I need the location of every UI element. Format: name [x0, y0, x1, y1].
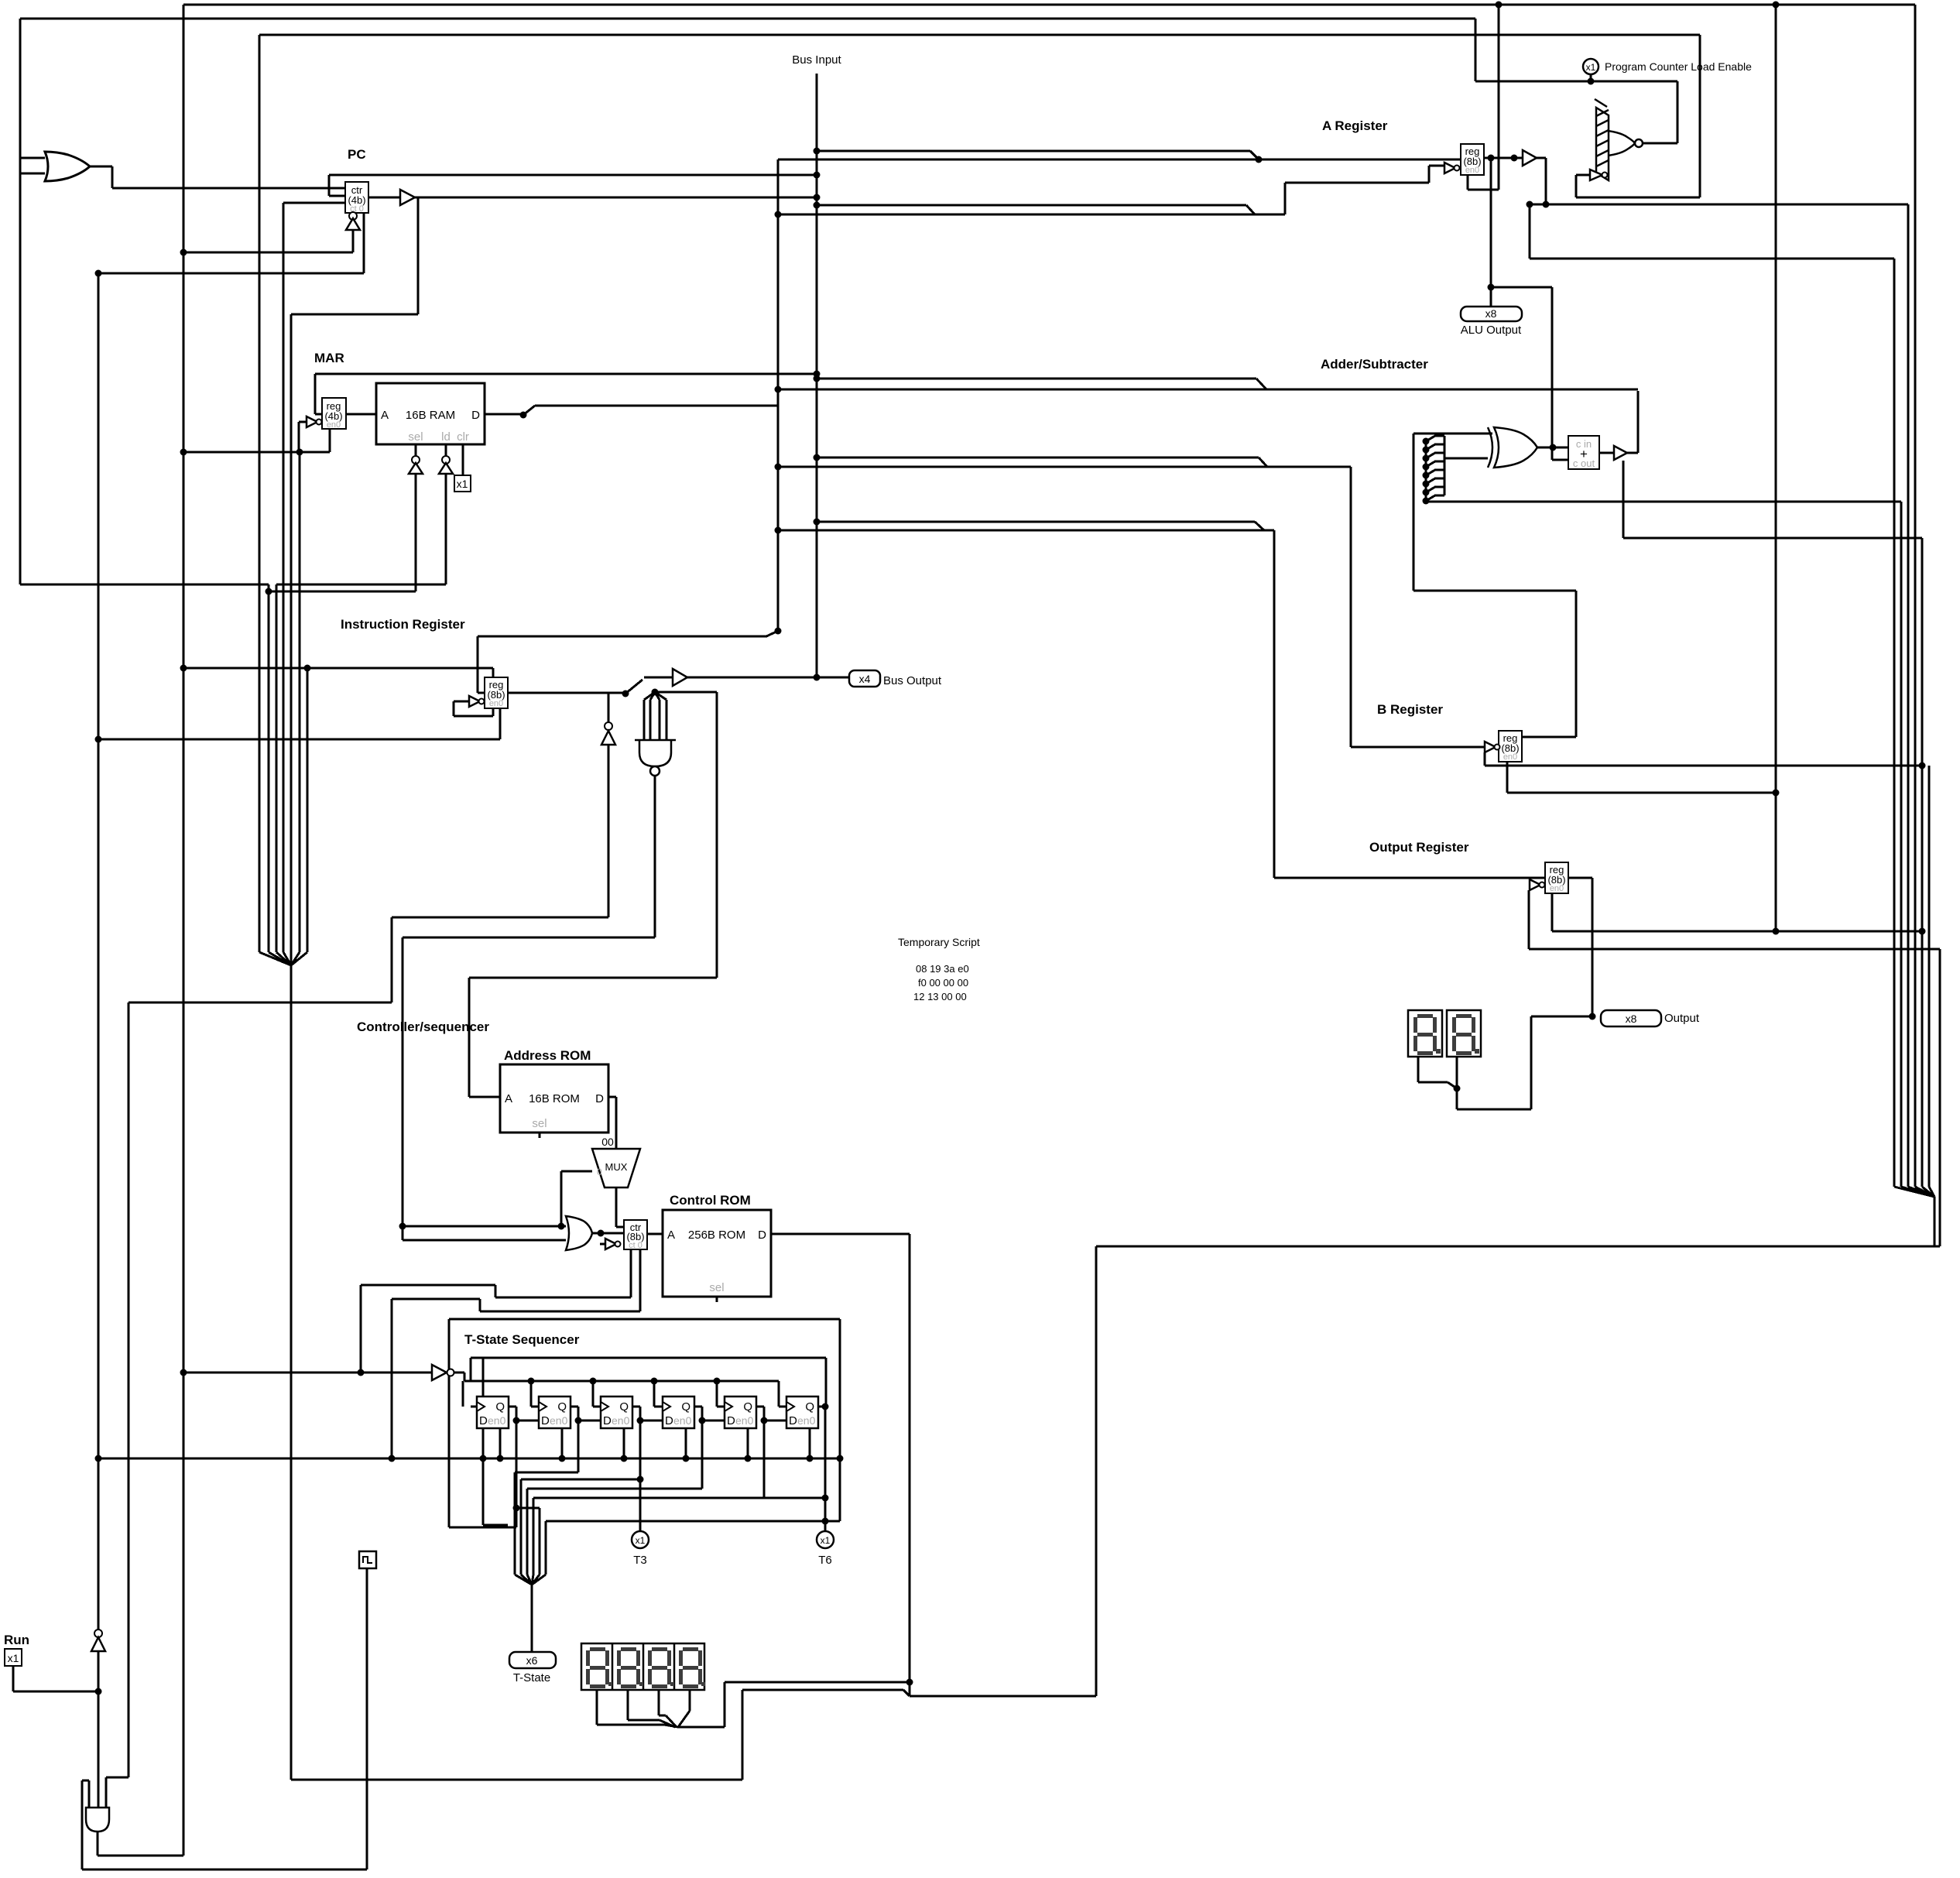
svg-text:en0: en0 [735, 1414, 754, 1427]
svg-text:en0: en0 [797, 1414, 816, 1427]
svg-text:Bus Output: Bus Output [883, 674, 942, 687]
svg-text:D: D [479, 1414, 488, 1427]
svg-text:x1: x1 [821, 1535, 831, 1546]
svg-text:MAR: MAR [314, 351, 344, 365]
svg-text:Q: Q [495, 1400, 505, 1414]
svg-text:Adder/Subtracter: Adder/Subtracter [1321, 357, 1428, 372]
svg-text:A: A [381, 409, 389, 422]
svg-text:Q: Q [557, 1400, 567, 1414]
svg-text:A Register: A Register [1322, 118, 1388, 133]
svg-text:c out: c out [1573, 458, 1595, 469]
svg-text:0: 0 [597, 1167, 602, 1177]
svg-text:Q: Q [681, 1400, 690, 1414]
svg-text:D: D [541, 1414, 550, 1427]
svg-text:x8: x8 [1626, 1013, 1637, 1025]
svg-text:en0: en0 [550, 1414, 568, 1427]
svg-text:12 13 00 00: 12 13 00 00 [913, 991, 967, 1002]
svg-text:D: D [758, 1229, 766, 1242]
svg-text:08 19 3a e0: 08 19 3a e0 [916, 963, 969, 975]
svg-text:D: D [727, 1414, 735, 1427]
svg-text:PC: PC [348, 147, 366, 162]
svg-text:A: A [505, 1092, 512, 1105]
svg-text:en0: en0 [612, 1414, 630, 1427]
svg-text:D: D [595, 1092, 604, 1105]
svg-text:ct 0: ct 0 [350, 204, 364, 214]
svg-text:Temporary Script: Temporary Script [898, 936, 980, 948]
svg-text:x1: x1 [1586, 62, 1596, 73]
svg-text:en0: en0 [1465, 166, 1479, 175]
svg-text:ALU Output: ALU Output [1461, 324, 1522, 337]
svg-text:x4: x4 [859, 673, 871, 685]
svg-text:x1: x1 [457, 478, 468, 490]
svg-text:sel: sel [408, 430, 423, 444]
svg-text:Instruction Register: Instruction Register [341, 617, 465, 632]
svg-text:Bus Input: Bus Input [792, 53, 841, 67]
svg-text:Q: Q [619, 1400, 629, 1414]
svg-text:16B ROM: 16B ROM [529, 1092, 580, 1105]
svg-text:sel: sel [709, 1281, 724, 1294]
svg-text:en0: en0 [327, 420, 341, 430]
svg-text:en0: en0 [489, 699, 503, 708]
svg-text:Control ROM: Control ROM [670, 1193, 751, 1208]
svg-text:en0: en0 [488, 1414, 506, 1427]
svg-text:Output: Output [1664, 1012, 1700, 1025]
svg-text:f0 00 00 00: f0 00 00 00 [918, 977, 968, 989]
svg-text:D: D [603, 1414, 612, 1427]
svg-text:256B ROM: 256B ROM [688, 1229, 745, 1242]
svg-text:T-State: T-State [513, 1671, 550, 1684]
svg-text:en0: en0 [1503, 752, 1517, 762]
svg-text:en0: en0 [673, 1414, 692, 1427]
svg-text:en0: en0 [1550, 884, 1564, 893]
svg-text:Address ROM: Address ROM [504, 1048, 591, 1063]
svg-text:T-State Sequencer: T-State Sequencer [464, 1332, 580, 1347]
svg-text:D: D [471, 409, 480, 422]
svg-text:B Register: B Register [1377, 702, 1443, 717]
svg-text:clr: clr [457, 430, 469, 444]
svg-text:MUX: MUX [605, 1161, 628, 1173]
svg-text:Controller/sequencer: Controller/sequencer [357, 1020, 489, 1034]
svg-text:00: 00 [601, 1136, 614, 1148]
svg-text:x6: x6 [526, 1654, 538, 1667]
svg-text:A: A [667, 1229, 675, 1242]
svg-text:x1: x1 [636, 1535, 646, 1546]
svg-text:ct 0: ct 0 [629, 1241, 642, 1250]
svg-text:D: D [665, 1414, 673, 1427]
svg-text:D: D [789, 1414, 797, 1427]
svg-text:T3: T3 [633, 1554, 647, 1567]
svg-text:Program Counter Load Enable: Program Counter Load Enable [1605, 60, 1752, 73]
svg-text:Q: Q [805, 1400, 814, 1414]
svg-text:Run: Run [4, 1633, 29, 1647]
svg-text:x1: x1 [8, 1652, 19, 1664]
svg-text:Output Register: Output Register [1369, 840, 1469, 855]
svg-text:ld: ld [441, 430, 451, 444]
svg-text:Q: Q [743, 1400, 752, 1414]
svg-text:T6: T6 [818, 1554, 832, 1567]
svg-text:x8: x8 [1485, 307, 1497, 320]
svg-text:16B RAM: 16B RAM [406, 409, 455, 422]
svg-text:sel: sel [532, 1117, 547, 1130]
